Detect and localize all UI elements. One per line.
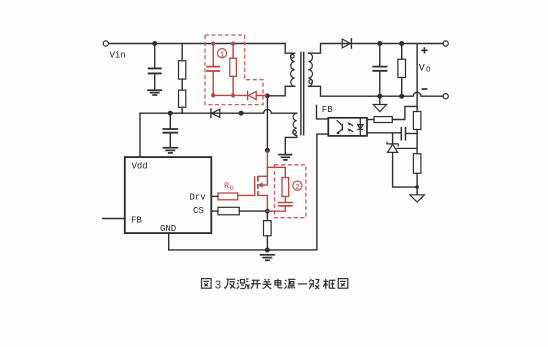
resistor startup R2 (179, 90, 186, 107)
svg-text:2: 2 (295, 184, 300, 192)
node clamp cap bottom (red) (211, 93, 215, 97)
svg-text:R: R (224, 181, 229, 191)
capacitor clamp (red) (206, 44, 220, 96)
ground divider (arrow) (410, 195, 425, 202)
wire secondary top rail (308, 44, 443, 54)
wire input rail (109, 43, 286, 45)
label circled 2 (293, 181, 302, 192)
wire LED series resistor to Vo+ line (392, 106, 417, 119)
capacitor Vdd bypass (162, 113, 178, 147)
transformer T1 aux winding (293, 113, 297, 135)
transformer T1 primary winding (291, 53, 295, 86)
diode D1 output rectifier (342, 39, 351, 48)
label minus (422, 88, 428, 90)
wire Drv pin stub (211, 195, 218, 197)
svg-text:Vin: Vin (110, 51, 126, 61)
wire LED anode pin (367, 119, 374, 121)
optocoupler light arrows (347, 122, 353, 132)
caption: 图 3.反激开关电源一般框图 (drawn strokes) (202, 279, 348, 293)
svg-text:1: 1 (220, 51, 225, 59)
resistor current sense (264, 221, 272, 236)
wire Vdd pin drop (139, 113, 141, 157)
optocoupler LED (357, 119, 363, 136)
TL431 shunt regulator (387, 133, 417, 187)
resistor CS filter (218, 207, 239, 215)
resistor clamp (red) (230, 44, 237, 96)
glyph 关 (263, 279, 272, 289)
capacitor compensation (401, 127, 417, 141)
resistor LED series (374, 117, 392, 123)
terminal Vo+ (443, 41, 448, 46)
node output resistor top (399, 41, 404, 46)
op IC U1 PWM controller box (125, 157, 212, 233)
node input-cap top (152, 41, 157, 46)
ground primary sense (260, 255, 275, 260)
wire Vdd feed (aux to IC) with hop over drain line (140, 109, 297, 113)
wire drain (red) (266, 150, 268, 185)
node TL431 anode junction (415, 185, 419, 189)
node clamp resistor top (red) (231, 42, 235, 46)
wire source to sense resistor (266, 211, 268, 250)
wire FB stub (103, 218, 125, 220)
resistor divider upper (413, 112, 421, 130)
wire snubber top (red) (267, 167, 285, 177)
wire secondary bottom / return rail with hop (308, 86, 443, 96)
wire snubber bottom (red) (267, 206, 285, 211)
glyph 反 (225, 279, 235, 288)
node output cap bottom (377, 94, 382, 99)
diode D2 aux rectifier (211, 109, 220, 117)
node clamp cap top (red) (211, 42, 215, 46)
transformer T1 secondary winding (308, 53, 312, 86)
red dashed box 1 (RCD clamp) (205, 35, 263, 105)
transistor Q1 MOSFET (red) (238, 176, 268, 211)
polarity dot primary (291, 54, 295, 58)
node clamp resistor bottom (red) (231, 93, 235, 97)
svg-text:FB: FB (131, 215, 142, 225)
wire snubber mid (red) (284, 197, 286, 203)
ground aux winding (278, 155, 292, 160)
resistor divider lower (413, 154, 421, 174)
terminal Vin (103, 41, 108, 46)
node snubber diode / primary bottom (265, 93, 270, 98)
transformer core (301, 52, 304, 136)
glyph 电 (275, 279, 282, 288)
diode clamp (red, pointing left) (248, 91, 257, 99)
node aux diode junction (239, 111, 244, 116)
ground Vdd bypass (163, 148, 179, 153)
capacitor input filter (148, 44, 162, 90)
resistor snubber 2 (red) (282, 178, 289, 197)
svg-text:O: O (426, 66, 431, 74)
node output resistor bottom (399, 94, 404, 99)
wire aux bottom to ground (285, 136, 297, 154)
resistor gate RG (red) (218, 193, 238, 200)
wire Vo+ sense feed line (416, 44, 418, 195)
glyph 激 (237, 279, 250, 289)
node sense ground junction (265, 248, 270, 253)
ground input-cap (147, 90, 162, 95)
node source junction (265, 209, 270, 214)
glyph 图 (338, 279, 348, 289)
glyph 源 (284, 279, 295, 288)
red dashed box 2 (snubber) (275, 165, 306, 218)
resistor output load (398, 44, 406, 97)
optocoupler phototransistor (336, 120, 342, 134)
glyph 开 (251, 280, 261, 288)
resistor startup R1 (179, 61, 186, 79)
svg-text:Vdd: Vdd (132, 161, 148, 171)
terminal Vo- (443, 94, 448, 99)
wire startup-resistor branch (181, 44, 183, 114)
glyph 框 (323, 279, 335, 289)
wire GND pin (168, 233, 170, 250)
wire primary ground rail to optocoupler emitter (169, 134, 329, 250)
node Vdd bypass junction (168, 111, 173, 116)
svg-text:Drv: Drv (190, 192, 207, 202)
wire clamp bottom (red) (213, 94, 266, 96)
polarity dot aux (293, 131, 297, 135)
node drain junction (265, 148, 270, 153)
wire primary top (285, 44, 295, 54)
node output cap top (377, 41, 382, 46)
svg-text:G: G (230, 185, 234, 192)
polarity dot secondary (309, 80, 313, 84)
wire drain vertical (snubber node down to MOSFET) (266, 96, 268, 151)
wire LED cathode pin to compensation cap (367, 132, 401, 134)
wire CS pin to source node (211, 210, 267, 212)
capacitor output filter (372, 44, 387, 97)
glyph 般 (309, 279, 319, 289)
wire FB net stub (317, 105, 329, 119)
ground output return (arrow) (373, 96, 386, 111)
label circled 1 (217, 49, 226, 60)
glyph 图 (202, 279, 212, 289)
wire primary bottom (267, 86, 294, 96)
glyph 一 (298, 283, 307, 285)
capacitor snubber 2 (red) (278, 203, 293, 206)
label plus (421, 47, 427, 53)
svg-text:CS: CS (193, 206, 204, 216)
optocoupler U2 box (328, 118, 367, 136)
svg-text:V: V (419, 63, 425, 74)
svg-text:FB: FB (322, 105, 333, 115)
